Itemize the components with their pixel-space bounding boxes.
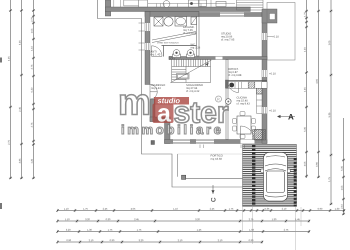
interior wall south of studio [169,57,267,60]
east window studio [262,33,267,40]
south wall [165,140,268,144]
room labels [151,26,279,160]
label RIPOST. [228,68,238,70]
window ticks outside [139,23,145,50]
level leader line studio window [267,36,272,38]
dimension ticks bottom chains [56,209,58,211]
carport entry steps hatch [253,130,263,140]
pillar portico corner [182,175,186,179]
immobiliare [122,125,221,135]
kitchen door opening [241,140,255,144]
balcony railing top right [237,0,264,10]
entrance double door [150,85,157,92]
kitchen counter horizontal [228,82,267,89]
studio north window [220,13,244,17]
label SOGGIORNO [186,84,203,86]
label LAVAND. [183,26,194,28]
staircase [170,60,211,83]
dimension figures [8,57,10,62]
west wall mid (below entrance) [150,99,155,122]
north wall studio [199,13,268,17]
label cf. mq 9.43 [237,103,250,106]
west wall upper [145,12,150,85]
section A marker [277,114,295,120]
label PORTICO [211,155,223,157]
left boundary polyline [98,0,243,187]
label VANO SOTTOSCALA [157,42,179,44]
west window 2 [145,43,150,50]
ster [175,103,229,123]
south window 1 [173,140,190,144]
lavanderia fixtures [154,17,163,26]
ripost door arc [228,82,239,93]
step connector [150,117,170,122]
kitchen west wall [226,60,228,140]
upper structure left wall [105,0,110,16]
south wall window ticks [200,145,245,149]
threshold hatch ingresso [169,57,175,60]
red studio band [154,97,189,105]
label mq 7.65 [183,29,192,31]
label ANTI [151,51,157,53]
label mq 18.28 [211,158,222,160]
label mq 3.26 [191,47,200,49]
dimension ticks right chains [305,10,307,12]
north wall lavanderia [145,12,199,17]
portico faint line [178,153,243,155]
label mq 0.87 [228,71,237,73]
label cf. mq 0.68 [183,32,196,35]
red a box [153,104,174,124]
section C marker [211,185,216,202]
dimension lines left [11,0,34,179]
dining table [237,116,251,134]
under-stair wedge [152,32,196,43]
east wall [262,12,267,144]
interior wall lavanderia/studio [197,17,200,57]
label WC [191,44,195,46]
logo m [120,95,148,115]
upper fixtures row [124,0,144,6]
terrace outline [267,3,295,61]
label cf. mq 7.95 [221,39,234,42]
west wall lower [165,117,171,144]
level mark +0.10 studio [272,36,279,38]
label STUDIO [221,33,231,35]
south window 2 [196,140,214,144]
car [261,153,290,202]
pillar SW [151,141,155,145]
east window kitchen 1 [262,70,267,77]
level mark +0.10 kitchen2 [269,110,276,112]
label mq 6.43 [151,87,160,89]
wc toilet [173,54,181,58]
label mq 1.40 [151,53,160,55]
dimension ticks left chains [9,9,11,11]
carport [243,145,297,207]
label INGRESSO [151,84,165,86]
NE grey jut [262,9,277,23]
label mq 20.06 [221,36,232,38]
label mq 15.40 [237,100,248,102]
kitchen door arc [241,126,255,140]
dimension lines bottom [57,211,345,243]
partition lavand/wc [162,45,197,47]
west window 1 [145,23,150,31]
label CUCINA [237,97,247,99]
top wall band [105,7,250,12]
ripost south wall [228,80,267,82]
dimension lines right [307,0,344,215]
hearth hatch in kitchen corner [255,130,266,141]
label cf. mq 0.88 [228,74,241,77]
label cf. mq 4.32 [186,90,199,93]
wc bidet [187,54,195,58]
level mark +0.10 kitchen1 [269,73,276,75]
kitchen counter vertical [257,88,263,113]
extension lines bottom [243,207,302,250]
portico inner edge [177,154,179,177]
kitchen column marker [226,99,232,105]
anti door arc [152,46,163,57]
east window kitchen 2 [262,107,267,114]
label mq 27.94 [186,87,197,89]
